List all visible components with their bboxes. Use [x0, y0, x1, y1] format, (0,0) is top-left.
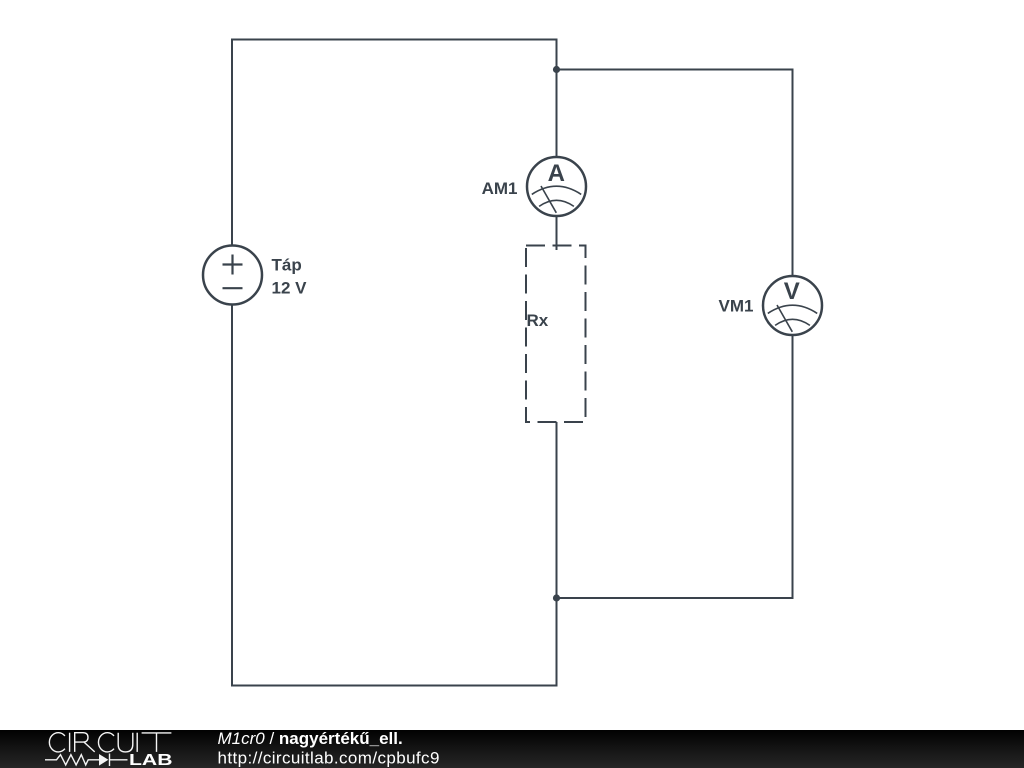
- wire right branch top to voltmeter: [557, 70, 793, 277]
- node junction top: [553, 66, 560, 73]
- CircuitLab logo CIRCUIT: [49, 733, 171, 752]
- voltage source V1 Táp: [203, 246, 262, 305]
- svg-text:AM1: AM1: [482, 179, 518, 198]
- svg-text:Rx: Rx: [527, 311, 549, 330]
- ammeter AM1: [527, 157, 586, 216]
- svg-text:A: A: [548, 160, 565, 187]
- wire ammeter to Rx: [556, 216, 558, 250]
- footer bar: [0, 730, 1024, 768]
- wire top loop: source to ammeter: [232, 40, 557, 247]
- logo resistor-diode glyph: [45, 754, 128, 767]
- node junction bottom: [553, 594, 560, 601]
- resistor Rx dashed box: [526, 246, 586, 423]
- wire right branch bottom to voltmeter: [557, 335, 793, 598]
- svg-text:VM1: VM1: [719, 297, 754, 316]
- svg-text:Táp: Táp: [272, 256, 302, 275]
- voltmeter VM1: [763, 276, 822, 335]
- svg-text:12 V: 12 V: [272, 278, 308, 297]
- svg-text:V: V: [784, 278, 800, 305]
- wire bottom loop: source to Rx: [232, 305, 557, 686]
